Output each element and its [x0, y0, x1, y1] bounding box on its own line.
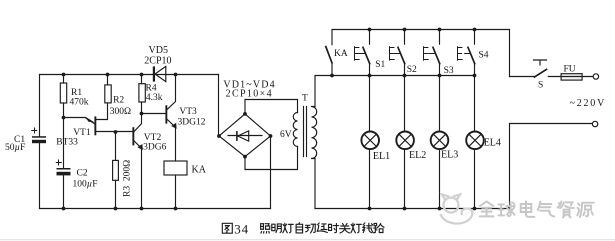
- diode VD5 2CP10: [144, 45, 171, 82]
- svg-text:S2: S2: [407, 65, 417, 75]
- svg-text:S: S: [538, 81, 543, 91]
- svg-text:FU: FU: [564, 65, 576, 75]
- svg-text:2CP10: 2CP10: [144, 56, 171, 67]
- wire bridge top corner to transformer secondary top: [245, 100, 298, 114]
- wire neutral down to bottom rail: [510, 124, 593, 209]
- wire bridge right corner down to bottom rail: [270, 136, 272, 209]
- node neutral/bottom-rail junction: [508, 207, 512, 211]
- svg-text:EL1: EL1: [373, 151, 390, 162]
- capacitor C2: [56, 118, 97, 211]
- resistor R1: [60, 73, 88, 118]
- svg-text:50µF: 50µF: [5, 143, 25, 153]
- watermark logo: [441, 195, 473, 224]
- transistor VT1 (BT33): [56, 103, 132, 147]
- node B1 junction: [114, 130, 118, 134]
- svg-text:EL3: EL3: [441, 150, 458, 161]
- lamp EL4: [466, 76, 501, 211]
- node emitter junction of VT1: [62, 116, 66, 120]
- svg-text:VD5: VD5: [149, 45, 168, 56]
- svg-text:6V: 6V: [280, 130, 292, 140]
- bridge rectifier VD1~VD4: [217, 79, 276, 158]
- wire top rail left circuit: [40, 74, 219, 76]
- wire switch-bottom rail: [332, 75, 475, 77]
- svg-text:R2: R2: [113, 96, 124, 106]
- svg-text:R4: R4: [146, 83, 157, 93]
- wire left vertical upper: [39, 75, 41, 137]
- wire live feed to switch S: [510, 76, 535, 78]
- svg-text:R1: R1: [71, 88, 82, 98]
- wire primary top lead: [315, 76, 332, 107]
- resistor R4: [139, 73, 163, 114]
- svg-text:S4: S4: [479, 50, 489, 60]
- svg-text:T: T: [302, 94, 308, 104]
- svg-text:3DG12: 3DG12: [178, 118, 206, 128]
- svg-text:34: 34: [234, 222, 249, 237]
- transformer T core: [304, 107, 307, 157]
- lamp EL1: [361, 76, 390, 211]
- svg-text:C2: C2: [77, 169, 88, 179]
- svg-text:R3 200Ω: R3 200Ω: [123, 160, 133, 197]
- svg-text:EL4: EL4: [484, 137, 501, 148]
- bottom scan artifact line: [0, 239, 615, 241]
- svg-text:BT33: BT33: [56, 137, 78, 147]
- svg-text:3DG6: 3DG6: [143, 143, 166, 153]
- lamp EL3: [431, 76, 459, 211]
- terminal live 220V: [593, 74, 598, 79]
- svg-text:470k: 470k: [70, 98, 89, 108]
- switch S4: [458, 28, 489, 78]
- relay coil KA: [164, 161, 207, 210]
- svg-text:S3: S3: [444, 66, 454, 76]
- svg-text:300Ω: 300Ω: [110, 107, 131, 117]
- svg-text:KA: KA: [192, 164, 207, 175]
- svg-text:KA: KA: [334, 49, 348, 59]
- svg-text:VT2: VT2: [144, 133, 162, 143]
- svg-text:VT3: VT3: [179, 107, 197, 117]
- wire top rail corner down to bridge: [218, 75, 221, 137]
- svg-text:100µF: 100µF: [73, 180, 98, 190]
- wire primary bottom lead: [314, 159, 316, 209]
- svg-text:S1: S1: [375, 60, 385, 70]
- switch S2: [390, 28, 417, 78]
- wire left vertical lower: [39, 143, 41, 208]
- lamp EL2: [396, 76, 426, 211]
- wire bottom rail left circuit: [40, 208, 271, 210]
- transistor VT2 (3DG6): [132, 114, 166, 211]
- switch S3: [424, 28, 454, 78]
- terminal neutral 220V: [592, 121, 597, 126]
- capacitor C1: [5, 128, 46, 153]
- node R4/VT2/VT3 junction: [140, 112, 144, 116]
- relay contact KA: [326, 47, 348, 78]
- wire top rail right circuit: [332, 30, 510, 77]
- transistor VT3 (3DG12): [142, 73, 206, 161]
- caption: 图34 照明灯自动延时关灯线路: [222, 223, 384, 233]
- svg-text:~220V: ~220V: [570, 98, 607, 109]
- wire bottom rail right circuit: [315, 208, 510, 210]
- switch S: [534, 60, 547, 91]
- transformer T secondary winding 6V: [293, 113, 297, 147]
- switch S1: [355, 28, 386, 78]
- resistor R3: [113, 132, 133, 210]
- watermark text 全球电气资源: [480, 201, 594, 217]
- resistor R2: [105, 73, 131, 118]
- transformer T primary winding: [312, 107, 317, 159]
- wire bridge bottom corner to transformer secondary bottom: [245, 147, 298, 170]
- fuse FU: [548, 65, 593, 80]
- svg-text:4.3k: 4.3k: [146, 93, 163, 103]
- svg-text:2CP10×4: 2CP10×4: [226, 89, 273, 100]
- svg-text:EL2: EL2: [409, 150, 426, 161]
